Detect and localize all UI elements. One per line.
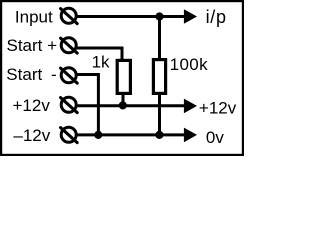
node junction dot 100k/0v rail [155, 131, 163, 139]
arrow i/p [184, 9, 197, 24]
resistor R1 1k [117, 60, 130, 93]
terminal +12v [61, 97, 78, 112]
svg-text:–12v: –12v [13, 126, 50, 145]
wire Start- down to 0v rail [77, 75, 99, 135]
wire Input to i/p arrow [77, 15, 186, 18]
wire 100k top lead from input line [158, 17, 161, 61]
svg-text:Start +: Start + [7, 36, 58, 55]
wire 0v rail [77, 133, 186, 136]
wire 100k bottom lead crossing +12v rail to 0v rail [158, 94, 161, 135]
svg-text:0v: 0v [206, 128, 224, 147]
svg-text:Input: Input [15, 7, 53, 26]
terminal Start - [61, 68, 78, 83]
svg-text:i/p: i/p [206, 7, 227, 27]
wire 1k bottom lead to +12v rail [122, 94, 125, 107]
terminal Input [61, 8, 78, 23]
wire Start+ to 1k resistor top [77, 48, 123, 60]
resistor R2 100k [153, 60, 165, 94]
arrow 0v [184, 128, 197, 143]
wire +12v rail [77, 104, 186, 107]
node junction dot Start-/0v rail [94, 131, 102, 139]
svg-text:+12v: +12v [199, 99, 237, 118]
terminal Start + [61, 38, 78, 53]
svg-text:1k: 1k [92, 52, 110, 71]
svg-text:100k: 100k [170, 55, 209, 74]
svg-text:+12v: +12v [13, 96, 51, 115]
node junction dot 1k/+12v rail [119, 101, 127, 109]
arrow +12v [184, 99, 197, 114]
terminal -12v [61, 127, 78, 142]
node junction dot on input line [155, 12, 163, 20]
